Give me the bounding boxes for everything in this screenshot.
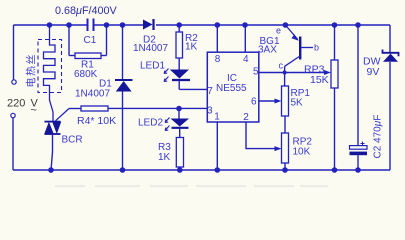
potentiometer RP3 [331,25,338,170]
triac BCR [44,109,69,171]
wire RP1 to RP2 [284,116,286,133]
node R3 bottom [177,167,183,173]
svg-text:2: 2 [243,112,249,123]
LED2 [165,109,189,138]
resistor R4 [69,106,108,111]
svg-text:3AX: 3AX [258,45,277,56]
node R1 right [104,22,110,28]
transistor Q1 BG1 [285,25,313,86]
pin 1 [214,112,220,170]
node RP3 top [332,22,338,28]
svg-text:7: 7 [207,86,213,97]
svg-text:b: b [314,43,319,53]
resistor R2 [176,25,183,70]
svg-text:C2 470μF: C2 470μF [373,115,384,159]
diode D1 [115,25,133,170]
svg-text:1: 1 [214,112,220,123]
pin 6 wire to RP1 [251,96,282,107]
terminal lower 220V [11,113,15,117]
pin 5 wire to RP3 [253,67,331,78]
label 220V [7,98,39,117]
wire LED1 to pin7 [179,88,207,90]
pin 2 wire to RP2 [243,112,281,151]
wire right rail lower [389,62,391,170]
capacitor C2 [350,25,368,170]
diode D2 [143,19,154,30]
wire pin3 line [108,107,207,109]
wire top rail mid [94,24,143,26]
node pin8 top [215,22,221,28]
node RP3 bottom [332,167,338,173]
node pin4 top [242,22,248,28]
node emitter top [283,22,289,28]
wire RP2 bottom [284,163,286,170]
svg-text:LED2: LED2 [138,118,163,129]
node C2 top [355,22,361,28]
zener DW [383,50,399,62]
pin 8 [215,25,221,65]
potentiometer RP1 [282,86,289,116]
svg-text:680K: 680K [74,69,98,80]
svg-text:BCR: BCR [62,135,83,146]
svg-text:3: 3 [207,105,213,116]
wire top rail right [156,24,390,26]
svg-text:8: 8 [215,54,221,65]
wire right rail upper [389,25,391,52]
svg-text:1N4007: 1N4007 [133,43,168,54]
svg-text:9V: 9V [367,66,380,78]
svg-text:1N4007: 1N4007 [75,89,110,100]
svg-text:15K: 15K [310,74,329,86]
node C2 bottom [355,167,361,173]
node LED2 tap [176,106,182,112]
node pin1 bottom [215,167,221,173]
capacitor C1 [88,19,94,32]
node D1 top [120,22,126,28]
node RP2 bottom [282,167,288,173]
svg-text:5: 5 [253,67,259,78]
svg-text:电热丝: 电热丝 [25,53,38,88]
svg-text:LED1: LED1 [140,61,165,72]
svg-text:C1: C1 [84,35,97,46]
node triac bottom [48,167,54,173]
node heater top [47,22,53,28]
node R1 left [66,22,72,28]
svg-text:R4* 10K: R4* 10K [77,115,116,127]
op-amp U1 IC NE555 box [207,52,258,122]
svg-text:e: e [276,26,281,36]
wire bottom rail [13,169,390,171]
heater dashed box [38,40,62,93]
svg-text:4: 4 [243,54,249,65]
node collector pin5 crossing [283,71,287,75]
svg-text:10K: 10K [293,147,311,158]
pin 4 [243,25,249,65]
heater element wire [44,25,56,122]
svg-text:~: ~ [31,105,37,117]
svg-text:NE555: NE555 [216,83,247,94]
LED1 [164,69,190,90]
resistor R3 [176,138,183,171]
resistor R1 [69,25,107,59]
svg-text:5K: 5K [291,98,304,109]
ghost caption [55,185,328,187]
svg-text:1K: 1K [185,42,198,53]
wire left AC drop lower [12,118,14,170]
potentiometer RP2 [282,133,289,163]
svg-text:6: 6 [251,96,257,107]
svg-text:c: c [279,61,284,71]
wire top rail left [14,24,88,26]
svg-text:1K: 1K [158,152,171,163]
svg-text:220: 220 [7,98,25,110]
svg-text:0.68μF/400V: 0.68μF/400V [55,5,118,17]
wire left AC drop upper [13,25,15,80]
node R2 top [176,22,182,28]
terminal upper 220V [12,80,16,84]
node D1 bottom [120,167,126,173]
